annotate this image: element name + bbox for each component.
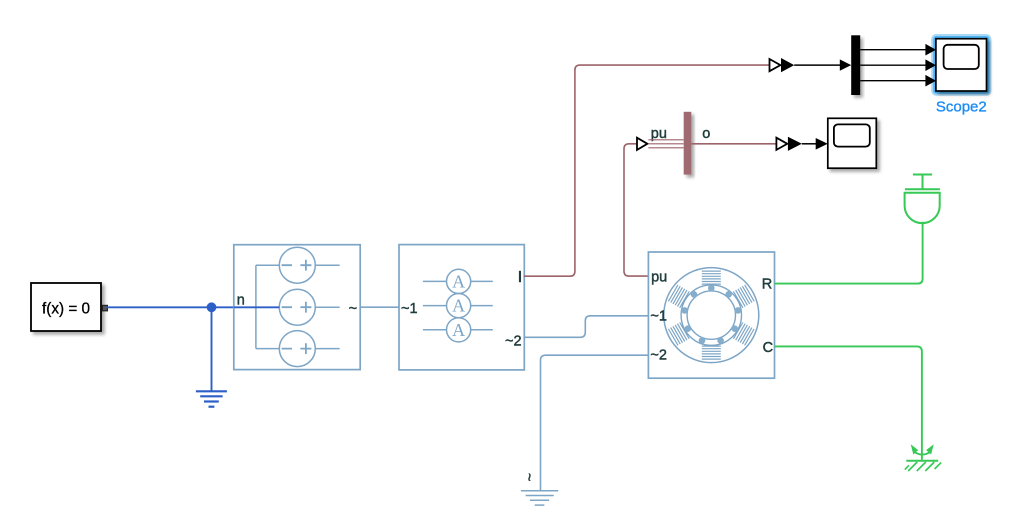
- wire source to ammeter: [360, 306, 399, 308]
- block M induction machine: [648, 252, 774, 378]
- block A1 three-phase current sensor: [399, 245, 524, 370]
- scope Scope2: [936, 39, 987, 91]
- svg-text:A: A: [452, 320, 465, 340]
- left connection lines: [256, 264, 279, 266]
- signal line converter2 to Scope1: [802, 143, 817, 145]
- machine rotor ring: [681, 285, 741, 345]
- source circle middle: [279, 289, 315, 325]
- svg-text:o: o: [702, 126, 710, 142]
- block V1 three-phase voltage source: [234, 245, 360, 370]
- right phase lines: [315, 264, 339, 266]
- PS-Simulink converter 1: [770, 58, 795, 72]
- signal lines mux to Scope2: [860, 50, 926, 81]
- arrowheads into Scope2 (over halo): [925, 44, 936, 56]
- svg-text:R: R: [762, 277, 772, 293]
- svg-text:C: C: [763, 340, 773, 356]
- wire ammeter ~2 to machine ~1: [524, 316, 648, 338]
- svg-text:~1: ~1: [650, 309, 667, 325]
- svg-text:A: A: [452, 296, 465, 316]
- bus selector bar B1: [684, 112, 692, 175]
- rotational element (lamp symbol): [905, 175, 940, 224]
- svg-text:~1: ~1: [401, 301, 418, 317]
- port of f(x)=0: [102, 305, 107, 310]
- selector bus lines: [648, 140, 683, 148]
- mechanical rotational reference symbol: [905, 444, 941, 471]
- source circle bottom: [279, 331, 315, 367]
- PS-Simulink converter 2: [776, 137, 801, 151]
- svg-text:~: ~: [520, 473, 536, 481]
- arrowhead into Scope1: [816, 138, 828, 150]
- scope Scope1: [828, 118, 877, 168]
- wire into middle source (blue): [234, 306, 279, 308]
- arrowhead into mux: [840, 59, 851, 70]
- svg-text:~2: ~2: [505, 333, 522, 349]
- scope Scope2 selection halo: [932, 35, 990, 95]
- node A junction: [207, 302, 217, 312]
- svg-text:~2: ~2: [650, 348, 667, 364]
- machine bearing balls: [681, 285, 741, 344]
- svg-text:pu: pu: [651, 270, 667, 286]
- ammeter circle 1: [447, 269, 471, 293]
- wire node A down to ground: [211, 307, 213, 391]
- A letters: [452, 271, 465, 339]
- wire machine R to rotational element (green): [775, 222, 923, 284]
- wire f(x)=0 to node A: [107, 306, 234, 308]
- svg-text:n: n: [237, 292, 245, 308]
- selector input port arrow: [637, 138, 647, 150]
- wire machine C down to rotational reference (green): [775, 346, 922, 459]
- minus plus symbols: [282, 260, 312, 354]
- svg-text:A: A: [452, 271, 465, 291]
- wire machine pu to selector (maroon): [624, 144, 648, 276]
- wire I to PS converter (maroon): [524, 65, 770, 276]
- source circle top: [279, 247, 315, 283]
- wire selector to converter2 (maroon): [691, 143, 776, 145]
- wire machine ~2 to ground G2: [541, 355, 649, 490]
- svg-text:~: ~: [349, 301, 357, 317]
- ammeter connection lines: [423, 280, 493, 282]
- block U1 Solver Configuration f(x)=0: [31, 283, 101, 331]
- svg-text:Scope2: Scope2: [936, 98, 987, 115]
- ground electrical reference G1: [196, 391, 227, 406]
- ground electrical reference G2: [521, 491, 558, 505]
- left bus vertical: [255, 265, 257, 348]
- ammeter circle 2: [447, 294, 471, 318]
- machine winding hatches: [668, 271, 754, 359]
- ammeter circle 3: [447, 318, 471, 342]
- svg-text:f(x) = 0: f(x) = 0: [42, 301, 90, 318]
- label I (ammeter output): [519, 271, 521, 282]
- signal line converter1 to mux: [794, 64, 840, 66]
- mux M1: [851, 35, 860, 95]
- machine outer circle: [664, 268, 759, 363]
